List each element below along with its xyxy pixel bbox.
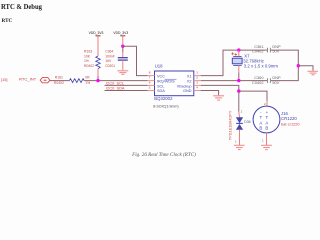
- svg-text:3.2 x 1.5 x 0.9mm: 3.2 x 1.5 x 0.9mm: [244, 64, 279, 69]
- pin 5 stub: [148, 90, 155, 92]
- node crystal bottom junction: [237, 79, 240, 82]
- svg-text:IRQ/WDIS: IRQ/WDIS: [157, 80, 175, 84]
- svg-text:SCL: SCL: [157, 84, 164, 88]
- svg-text:B: B: [265, 126, 268, 131]
- svg-text:RTC: RTC: [2, 18, 13, 24]
- pin 6 stub: [148, 84, 155, 86]
- svg-text:C364: C364: [105, 50, 113, 54]
- ground under battery: [261, 145, 272, 149]
- ground at pin 4: [213, 96, 224, 100]
- net I2C0_SCL: [105, 80, 148, 85]
- power VDD_3V3 (right, decoupling): [113, 30, 128, 46]
- svg-text:I2C0_SDA: I2C0_SDA: [106, 86, 125, 91]
- svg-text:1%: 1%: [85, 81, 90, 85]
- svg-text:C0402: C0402: [252, 80, 263, 85]
- pin 2 stub: [194, 80, 201, 82]
- wire battery to ground: [266, 133, 268, 145]
- svg-text:T: T: [266, 115, 269, 120]
- node IRQ junction: [96, 79, 99, 82]
- svg-text:0R: 0R: [85, 75, 90, 79]
- svg-text:8-SOIC(3.9mm): 8-SOIC(3.9mm): [153, 104, 178, 108]
- svg-text:A: A: [265, 120, 268, 125]
- node crystal top junction: [237, 48, 240, 51]
- ground under D36: [234, 145, 245, 149]
- node VDD junction: [121, 45, 124, 48]
- capacitor C360 (DNP): [252, 75, 281, 85]
- svg-text:VDD_3V3: VDD_3V3: [113, 30, 128, 35]
- svg-text:U18: U18: [155, 63, 163, 68]
- battery holder J16: [253, 106, 300, 133]
- svg-text:C0402: C0402: [252, 49, 263, 54]
- wire X2 row: [201, 80, 267, 82]
- svg-text:D36: D36: [244, 120, 250, 124]
- wire rail to ground: [298, 66, 313, 71]
- svg-text:bat-cr1220: bat-cr1220: [281, 122, 300, 127]
- pin 1 stub: [194, 75, 201, 77]
- ground at crystal rail: [308, 71, 319, 75]
- svg-text:R163: R163: [84, 50, 92, 54]
- svg-text:B: B: [259, 126, 262, 131]
- capacitor C364: [105, 46, 128, 68]
- node rail junction: [297, 64, 300, 67]
- svg-text:50V: 50V: [272, 80, 279, 85]
- svg-text:Vbackup: Vbackup: [177, 84, 192, 88]
- svg-text:VDD_3V3: VDD_3V3: [89, 30, 104, 35]
- resistor R163: [84, 50, 100, 81]
- diode D36 TVS: [228, 110, 251, 140]
- svg-text:100nF: 100nF: [105, 54, 115, 58]
- pin 3 stub: [194, 84, 201, 86]
- svg-text:BQ32002: BQ32002: [154, 96, 173, 101]
- IC U18 BQ32002 RTC chip: [153, 63, 194, 108]
- svg-text:X1: X1: [187, 75, 192, 79]
- wire GND pin 4: [201, 91, 219, 96]
- wire R161 to pin 7: [84, 80, 148, 82]
- svg-text:Fig. 26 Real Time Clock (RTC): Fig. 26 Real Time Clock (RTC): [131, 151, 196, 158]
- no-connect marks: [231, 52, 237, 55]
- wire VDD to VCC pin 8: [123, 46, 148, 75]
- svg-text:50V: 50V: [272, 49, 279, 54]
- crystal X7: [232, 50, 278, 81]
- svg-text:C0201: C0201: [105, 64, 115, 68]
- wire X1 to crystal / C361: [201, 50, 267, 76]
- svg-text:TPD1E1B04DPY: TPD1E1B04DPY: [228, 110, 233, 140]
- svg-text:SDA: SDA: [157, 89, 165, 93]
- svg-text:[15]: [15]: [1, 77, 8, 82]
- power VDD_3V3 (left, pull-up): [89, 30, 104, 56]
- svg-text:CR1220: CR1220: [281, 116, 297, 121]
- wire to diode: [238, 91, 240, 111]
- svg-text:10K: 10K: [84, 54, 91, 58]
- wire diode to ground: [239, 130, 241, 145]
- svg-text:16V: 16V: [105, 59, 112, 63]
- svg-text:R0402: R0402: [84, 64, 94, 68]
- svg-text:R161: R161: [55, 75, 63, 79]
- svg-text:X2: X2: [187, 80, 192, 84]
- pin 4 stub: [194, 90, 201, 92]
- wire C361 to rail: [270, 50, 298, 81]
- svg-text:T: T: [260, 115, 263, 120]
- ground under C364: [117, 60, 128, 74]
- svg-text:VCC: VCC: [157, 75, 165, 79]
- pin 8 stub: [148, 75, 155, 77]
- wire Vbackup net: [201, 85, 267, 101]
- svg-text:1%: 1%: [84, 59, 89, 63]
- svg-text:RTC & Debug: RTC & Debug: [1, 2, 42, 11]
- svg-text:GND: GND: [183, 89, 192, 93]
- node Vbackup junction: [237, 89, 240, 92]
- wire port to R161: [50, 80, 69, 82]
- resistor R161: [54, 75, 90, 85]
- pin 7 stub: [148, 80, 155, 82]
- svg-text:R0402: R0402: [54, 81, 64, 85]
- port RTC_INT: [40, 78, 50, 83]
- svg-text:RTC_INT: RTC_INT: [19, 77, 37, 82]
- capacitor C361 (DNP): [252, 44, 281, 54]
- svg-text:A: A: [259, 120, 262, 125]
- svg-text:+: +: [266, 110, 269, 115]
- net I2C0_SDA: [105, 86, 148, 91]
